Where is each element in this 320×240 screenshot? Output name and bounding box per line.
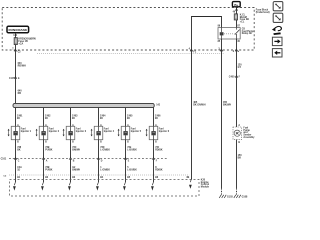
battery feed label box B+	[232, 2, 240, 7]
fuel injector 2	[39, 126, 48, 139]
wire label injector 3 control upper	[72, 147, 80, 151]
wire: injector 5 to connector C101	[125, 140, 127, 159]
connector C101 crossing injector 5	[124, 158, 130, 163]
ground G103	[219, 195, 233, 199]
in-line connector C400 on pump wire	[229, 75, 241, 78]
svg-text:DK GN/WH: DK GN/WH	[193, 104, 206, 107]
wire: connector C101 to ECM injector 2 driver	[43, 159, 45, 183]
wire label 640 RD upper	[18, 62, 26, 67]
wire: bus to fuel injector 6	[153, 108, 155, 127]
connector C101 crossing injector 1	[14, 158, 20, 163]
svg-text:L-BU/BK: L-BU/BK	[127, 170, 137, 172]
wire: injector 1 to connector C101	[15, 140, 17, 159]
dashed wire end segment to G108	[236, 188, 238, 194]
label: Fuel Pump and Sender Assembly	[243, 128, 255, 139]
fuel injector 3	[66, 126, 75, 139]
wire: bus to fuel injector 2	[43, 108, 45, 127]
label: Fuel Injector 6	[159, 129, 170, 133]
wire: connector C101 to ECM injector 4 driver	[98, 159, 100, 183]
fuel injector 4	[94, 126, 103, 139]
label: Fuel Injector 2	[49, 129, 60, 133]
label: Fuel Injector 5	[131, 129, 142, 133]
svg-text:RD: RD	[18, 92, 22, 95]
svg-text:BK: BK	[17, 150, 21, 152]
svg-text:B+: B+	[234, 3, 238, 7]
wire label injector 6 control lower	[155, 167, 163, 171]
ECM injector 3 driver arrow	[68, 182, 71, 191]
connector label above injector 3	[72, 115, 78, 120]
toolbar icon: back arrow	[272, 49, 282, 57]
wire: fuse 3B to relay switch	[236, 20, 238, 28]
svg-text:BK/WH: BK/WH	[223, 104, 231, 107]
injector 5 pintle arrows	[118, 129, 120, 137]
wire label 455 BK/WH	[223, 101, 231, 106]
svg-text:RUN/CRANK: RUN/CRANK	[9, 28, 28, 32]
svg-text:Injector 6: Injector 6	[159, 130, 170, 133]
wire label injector 2 control lower	[45, 167, 53, 171]
svg-text:Assembly: Assembly	[243, 136, 255, 139]
wire label injector 1 control lower	[17, 166, 22, 171]
svg-text:Relay 4B: Relay 4B	[242, 32, 252, 35]
svg-text:2D: 2D	[127, 118, 130, 120]
svg-text:2D: 2D	[72, 118, 75, 120]
fuel injector 1	[11, 126, 20, 139]
fuel pump dashed box	[233, 127, 242, 140]
injector 1 pintle arrows	[8, 129, 10, 137]
fuse 3B value label	[240, 15, 249, 24]
fuel injector 5	[121, 126, 130, 139]
relay coil	[220, 28, 224, 39]
connector C101 crossing injector 4	[97, 158, 103, 163]
svg-text:L-BU/BK: L-BU/BK	[127, 150, 137, 152]
ECM fuel pump relay driver arrow	[189, 179, 192, 189]
wire: bus to fuel injector 4	[98, 108, 100, 127]
connector C101 crossing injector 3	[69, 158, 75, 163]
wire: injector 4 to connector C101	[98, 140, 100, 159]
connector C101 crossing injector 2	[42, 158, 48, 163]
svg-text:(Underhood): (Underhood)	[256, 12, 270, 14]
engine control module dashed box	[10, 180, 200, 197]
relay control wire crossing at fuse block boundary	[189, 47, 197, 53]
wire label injector 3 control lower	[72, 167, 80, 171]
svg-text:BN/WH: BN/WH	[72, 170, 80, 172]
wire label 120 GY upper	[238, 64, 243, 69]
connector label above injector 6	[155, 115, 161, 120]
svg-text:Injector 2: Injector 2	[49, 130, 60, 133]
toolbar icon: zoom in (diagonal arrow)	[273, 13, 283, 22]
toolbar icon: next arrow	[272, 37, 282, 45]
fuel injector 6	[149, 126, 158, 139]
wire label injector 5 control upper	[127, 147, 137, 151]
svg-text:L-GN/BK: L-GN/BK	[100, 150, 110, 152]
wire label injector 2 control upper	[45, 147, 53, 151]
injector 4 pintle arrows	[91, 129, 93, 137]
connector crossing below B+ box	[233, 9, 238, 14]
connector line C1 (dotted)	[37, 53, 224, 55]
svg-text:Module: Module	[201, 187, 210, 189]
connector label above injector 2	[45, 115, 51, 120]
wire label injector 4 control lower	[100, 167, 110, 171]
wire: relay pin 85 to ground G103	[221, 39, 223, 188]
ECM injector 1 driver arrow	[13, 182, 16, 191]
wire: connector C101 to ECM injector 3 driver	[70, 159, 72, 183]
wire: injector 3 to connector C101	[70, 140, 72, 159]
label: Fuel Injector 3	[76, 129, 87, 133]
fuse 1B value label	[18, 37, 36, 45]
toolbar icon: zoom out (diagonal arrow)	[273, 2, 283, 11]
ECM injector 5 driver arrow	[123, 182, 126, 191]
wire label injector 1 control upper	[17, 147, 22, 151]
wire label injector 4 control upper	[100, 147, 110, 151]
injector 2 pintle arrows	[36, 129, 38, 137]
wire: ECM fuel pump relay control (routes up and over)	[192, 17, 222, 180]
connector line C2 of ECM (dotted)	[9, 174, 190, 176]
svg-text:C101: C101	[1, 159, 7, 161]
svg-text:PU/BK: PU/BK	[45, 150, 53, 152]
wire: bus to fuel injector 3	[70, 108, 72, 127]
label: Fuel Injector 4	[104, 129, 115, 133]
wire label injector 5 control lower	[127, 167, 137, 171]
wire label injector 6 control upper	[155, 147, 163, 151]
connector C101 crossing injector 6	[152, 158, 158, 163]
relay armature link (dashed)	[224, 33, 235, 35]
ground G108	[234, 195, 248, 199]
injector supply bus bar	[13, 103, 154, 107]
connector label above injector 4	[100, 115, 106, 120]
wire: bus to fuel injector 5	[125, 108, 127, 127]
wire: connector C101 to ECM injector 6 driver	[153, 159, 155, 183]
svg-text:G108: G108	[242, 197, 248, 199]
connector C2 crossing at fuse block boundary	[12, 48, 21, 53]
wire: bus to fuel injector 1	[15, 108, 17, 127]
relay ground wire crossing at fuse block boundary	[218, 48, 223, 51]
svg-text:+CL: +CL	[240, 21, 245, 23]
injector 3 pintle arrows	[63, 129, 65, 137]
wire label 465 DK GRN	[193, 101, 206, 106]
pump wire crossing at fuse block boundary	[233, 49, 239, 53]
ECM injector 2 driver arrow	[41, 182, 44, 191]
wire: label box to fuse 1B	[15, 34, 17, 38]
underhood fuse block dashed boundary	[2, 8, 254, 51]
svg-text:G103: G103	[227, 197, 233, 199]
fuse 1B	[14, 38, 17, 45]
svg-text:+CA: +CA	[18, 42, 23, 45]
svg-text:RD/BK: RD/BK	[155, 150, 163, 152]
relay switch contact	[235, 28, 240, 39]
svg-text:2D: 2D	[155, 118, 158, 120]
in-line connector C145 on left feed wire	[9, 77, 20, 80]
wire: relay pin 30 to fuel pump	[236, 39, 238, 127]
svg-text:Injector 4: Injector 4	[104, 130, 115, 133]
svg-text:Injector 5: Injector 5	[131, 130, 142, 133]
toolbar icon: jump/return curved arrow	[272, 26, 282, 35]
svg-text:2D: 2D	[100, 118, 103, 120]
connector label above injector 5	[127, 115, 133, 120]
svg-text:2D: 2D	[17, 118, 20, 120]
svg-text:Injector 1: Injector 1	[21, 130, 32, 133]
injector 6 pintle arrows	[146, 129, 148, 137]
ECM injector 4 driver arrow	[96, 182, 99, 191]
dashed wire end segment to G103	[221, 188, 223, 194]
svg-text:GY: GY	[238, 66, 242, 69]
svg-text:RD/BK: RD/BK	[155, 170, 163, 172]
svg-text:C145: C145	[9, 77, 15, 80]
fuel pump motor	[234, 130, 240, 136]
wire label 640 RD lower	[18, 89, 23, 94]
svg-text:BK: BK	[238, 157, 242, 160]
wire label 150 BK lower	[238, 154, 243, 159]
svg-text:1D: 1D	[17, 170, 20, 172]
wire: injector 2 to connector C101	[43, 140, 45, 159]
svg-text:C400: C400	[229, 76, 235, 79]
label: Fuel Pump Relay	[242, 28, 254, 35]
wire: connector C101 to ECM injector 1 driver	[15, 159, 17, 183]
wire: fuse 1B to injector bus	[15, 45, 17, 104]
svg-text:3B: 3B	[186, 177, 189, 179]
connector line C101 (dashed)	[9, 158, 169, 160]
wire: injector 6 to connector C101	[153, 140, 155, 159]
wire: fuel pump to ground G108	[236, 140, 238, 189]
ECM injector 6 driver arrow	[151, 182, 154, 191]
label: Fuse Block (Underhood)	[256, 10, 270, 14]
wire: connector C101 to ECM injector 5 driver	[125, 159, 127, 183]
fuel pump relay box	[218, 28, 240, 39]
svg-text:PU/BK: PU/BK	[45, 170, 53, 172]
svg-text:Injector 3: Injector 3	[76, 130, 87, 133]
label: Engine Control Module	[201, 180, 210, 189]
label: Fuel Injector 1	[21, 129, 32, 133]
connector label above injector 1	[17, 115, 23, 120]
svg-text:BN/WH: BN/WH	[72, 150, 80, 152]
svg-text:L-GN/BK: L-GN/BK	[100, 170, 110, 172]
fuse 3B	[234, 14, 237, 20]
svg-text:RD/WH: RD/WH	[18, 65, 26, 68]
power feed label box (RUN/CRANK)	[7, 26, 29, 33]
svg-text:2D: 2D	[45, 118, 48, 120]
wire: B+ to fuse 3B	[236, 7, 238, 14]
